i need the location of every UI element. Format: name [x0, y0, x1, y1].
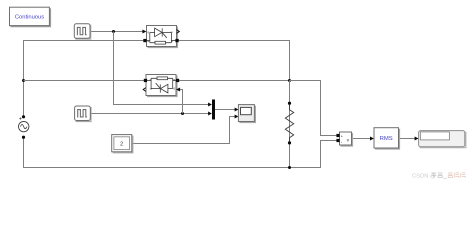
- junction J1 on gate wire: [112, 30, 115, 33]
- pulse generator PG1: [74, 24, 90, 39]
- V1 port dots: [22, 115, 25, 118]
- T1 anode port square (a): [143, 39, 146, 42]
- svg-text:RMS: RMS: [380, 136, 393, 142]
- U1 + port square: [336, 134, 339, 137]
- junction J2: branch to thyristor T2 cathode: [22, 79, 25, 82]
- wire W15: RMS output to Display input: [399, 138, 415, 140]
- thyristor T2 shadow: [147, 76, 177, 97]
- junction J4: resistor bottom on rail: [288, 166, 291, 169]
- Scope block: [238, 105, 255, 123]
- thyristor T1: [142, 26, 179, 47]
- thyristor T2 (mirrored copy of T1): [143, 75, 180, 96]
- arrowhead into Mux input 1: [208, 103, 212, 107]
- U1 - port square: [336, 139, 339, 142]
- junction J3: load top node: [288, 79, 291, 82]
- AC voltage source V1: [19, 115, 29, 139]
- V1 + mark: [19, 117, 21, 119]
- watermark CJK glyph marks: [432, 173, 443, 178]
- T1 measurement output arrow (port m, unconnected): [177, 30, 180, 34]
- junction J5 on pulse2 wire: [181, 112, 184, 115]
- wire W12: Mux output to Scope input 1: [215, 109, 235, 111]
- pulse generator PG2: [75, 106, 91, 122]
- wire W14: voltage measurement output to RMS input: [352, 138, 371, 140]
- powergui block (Continuous): [10, 7, 51, 26]
- wire W3: AC source + terminal up and right to T1 anode: [24, 41, 144, 117]
- constant K1 (value 2): [112, 135, 133, 153]
- wire W9: bottom rail from source - terminal to voltage measurement - input: [24, 137, 337, 167]
- svg-text:Continuous: Continuous: [15, 15, 44, 21]
- wire W8: load node to voltage measurement + input: [290, 81, 337, 136]
- wire W13: constant K1 output to Scope input 2: [132, 117, 235, 144]
- wire W5: T1 cathode right then down to load node: [179, 41, 290, 81]
- wire W11: junction J5 up to thyristor T2 gate: [180, 90, 182, 114]
- T1 port labels: [147, 30, 173, 43]
- load resistor R1: [285, 102, 293, 145]
- RMS block: [374, 128, 400, 149]
- wire W1: pulse generator 1 output to thyristor T1 gate: [90, 31, 143, 33]
- T1 gate input arrow (port g): [142, 30, 146, 34]
- wire W4: junction J2 to T2 cathode: [24, 80, 145, 82]
- wire W2: junction J1 down to Mux input 1: [114, 32, 209, 105]
- svg-text:2: 2: [120, 141, 123, 147]
- voltage measurement block U1: [336, 132, 352, 146]
- wire W10: pulse generator 2 output to Mux input 2: [90, 113, 208, 115]
- arrowhead into Mux input 2: [208, 112, 212, 116]
- svg-text:CSDN @: CSDN @: [412, 174, 436, 180]
- T1 cathode port square (k): [175, 39, 178, 42]
- Mux block: [212, 100, 215, 120]
- wire W7: load node down through resistor to bottom rail: [289, 81, 291, 168]
- wire W6: T2 anode right to load node: [179, 80, 289, 82]
- thyristor T1 (shadow): [148, 27, 178, 48]
- Display block: [419, 131, 466, 148]
